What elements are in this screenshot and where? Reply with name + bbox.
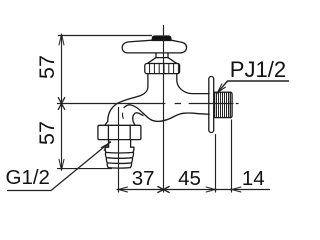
bottom dim arrow at x=118 pointing left [117,187,128,192]
arrow at x=231.5 pointing left [231,187,242,192]
thread section [215,92,231,117]
svg-text:G1/2: G1/2 [6,166,50,189]
svg-text:PJ1/2: PJ1/2 [230,57,286,82]
X crossing at x=163.5 [158,187,169,193]
middle extension + pipe centerline [57,103,239,105]
PJ1/2 leader [218,81,289,92]
knurl lines [150,64,179,74]
arrow at x=215.6 pointing right [206,187,217,192]
nut facet lines [108,125,130,139]
wall flange [209,77,214,133]
svg-text:14: 14 [242,167,265,190]
spout inner edge arc [133,113,143,125]
handle skirt flare [148,58,177,64]
barb ring 3 [106,158,132,164]
bottom extension line (spout outlet) [57,168,112,170]
svg-text:45: 45 [178,167,201,190]
body left side [140,74,148,96]
extension line at thread start [215,134,217,193]
spout bell flare left [105,122,108,126]
barb ring 2 [105,152,133,158]
vertical centerline of valve [163,25,165,193]
G1/2 leader [7,143,110,191]
arrow up at y=35.5 [59,34,64,45]
pipe end cap [230,92,232,117]
vertical dimension line x=61 [61,36,63,169]
extension line at pipe end [231,120,233,193]
barb ring 1 [105,147,134,153]
G leader arrowhead [101,141,111,150]
spout outer curve [108,96,140,122]
barb shank [109,140,131,147]
svg-text:37: 37 [132,167,155,190]
svg-text:57: 57 [35,55,59,79]
thread hatch lines [217,92,229,117]
handle stem [156,53,168,57]
barb ring 4 tip [107,163,131,168]
arrow down at y=169 [59,159,64,170]
body right side into pipe top [177,74,209,94]
hex nut [98,125,141,139]
bottom dimension line [118,189,270,191]
top extension line (handle top) [58,35,152,37]
dimension/centerline graphics [7,25,289,193]
body underside wave [124,105,209,122]
spout centerline [118,107,120,193]
handle cap [152,36,171,41]
PJ leader arrowhead [216,84,225,94]
X crossing at y=103.5 on x=61 [58,98,64,110]
svg-text:57: 57 [35,121,59,145]
bonnet knurled nut [145,64,180,74]
spout surface tick [121,113,124,118]
handle [122,40,186,53]
arrowheads (crossed slash style) [58,34,241,193]
